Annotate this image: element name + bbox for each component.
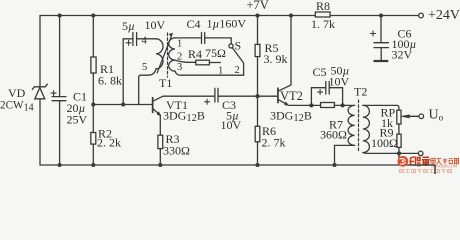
transformer T1 left winding (pins 4,5) bbox=[156, 39, 163, 69]
svg-text:6. 8k: 6. 8k bbox=[98, 74, 122, 88]
transistor VT1 bbox=[152, 96, 163, 116]
resistor R1 bbox=[91, 16, 96, 133]
resistor R7 bbox=[311, 103, 354, 108]
svg-text:C5: C5 bbox=[313, 65, 327, 79]
svg-text:25V: 25V bbox=[67, 113, 88, 127]
T1 core (dashed) bbox=[167, 33, 169, 77]
svg-text:R4: R4 bbox=[188, 47, 202, 61]
transformer T2 primary bbox=[348, 105, 355, 145]
svg-text:+24V: +24V bbox=[428, 8, 460, 23]
resistor R2 bbox=[91, 133, 96, 166]
svg-text:S: S bbox=[235, 39, 242, 53]
potentiometer RP bbox=[397, 110, 424, 124]
svg-text:3: 3 bbox=[177, 62, 182, 73]
wire VT1 collector to C3 bbox=[163, 95, 215, 97]
resistor R6 bbox=[255, 96, 260, 165]
capacitor C1 bbox=[51, 16, 66, 166]
svg-text:1. 7k: 1. 7k bbox=[311, 17, 335, 31]
wire top rail +7V bbox=[40, 15, 419, 17]
wire bottom ground rail bbox=[40, 165, 435, 174]
svg-text:VT2: VT2 bbox=[280, 89, 303, 103]
svg-text:T2: T2 bbox=[354, 85, 367, 99]
svg-text:32V: 32V bbox=[392, 48, 413, 62]
wire left vertical bbox=[39, 16, 41, 166]
svg-text:C4: C4 bbox=[187, 17, 201, 31]
svg-text:2: 2 bbox=[235, 65, 240, 76]
svg-text:10V: 10V bbox=[329, 75, 350, 89]
terminal circle +24V bbox=[419, 13, 424, 18]
zener diode VD 2CW14 bbox=[32, 84, 47, 99]
svg-text:3DG12B: 3DG12B bbox=[270, 109, 312, 125]
svg-text:+7V: +7V bbox=[247, 0, 269, 12]
svg-text:4: 4 bbox=[142, 36, 148, 47]
svg-text:VD: VD bbox=[8, 86, 26, 100]
terminal circle lower bbox=[418, 151, 423, 156]
wire T2 secondary top to RP bbox=[363, 105, 399, 110]
T1 adjust arrow bbox=[157, 33, 172, 73]
resistor R3 bbox=[158, 116, 163, 166]
capacitor C6 bbox=[371, 16, 389, 62]
resistor R5 bbox=[255, 16, 260, 97]
watermark logo bbox=[398, 156, 459, 173]
svg-text:1µ160V: 1µ160V bbox=[207, 17, 247, 31]
svg-text:5µ: 5µ bbox=[122, 19, 135, 33]
svg-text:2. 7k: 2. 7k bbox=[262, 136, 286, 150]
svg-text:100Ω: 100Ω bbox=[371, 136, 398, 150]
resistor R4 bbox=[175, 60, 220, 65]
wire T1 pin5 to base bbox=[139, 69, 156, 105]
resistor R9 bbox=[397, 124, 401, 165]
capacitor C5 bbox=[311, 82, 342, 106]
svg-text:330Ω: 330Ω bbox=[163, 144, 190, 158]
svg-text:2: 2 bbox=[177, 52, 182, 63]
wire VT1 base line bbox=[93, 104, 152, 106]
svg-text:5: 5 bbox=[142, 62, 147, 73]
svg-text:R8: R8 bbox=[316, 0, 330, 13]
svg-text:3DG12B: 3DG12B bbox=[163, 109, 205, 125]
capacitor C4 bbox=[175, 33, 231, 44]
transformer T1 right winding (pins 1,2,3) bbox=[169, 38, 175, 71]
wire T2 primary bottom to ground bbox=[335, 145, 355, 165]
svg-text:360Ω: 360Ω bbox=[320, 128, 347, 142]
capacitor C2 bbox=[123, 33, 156, 105]
svg-text:T1: T1 bbox=[159, 76, 172, 90]
svg-text:1: 1 bbox=[177, 39, 182, 50]
svg-text:1: 1 bbox=[218, 66, 223, 77]
resistor R8 bbox=[315, 12, 330, 17]
svg-text:2. 2k: 2. 2k bbox=[97, 136, 121, 150]
wire ground rail over watermark bbox=[409, 165, 436, 174]
svg-text:10V: 10V bbox=[221, 118, 242, 132]
svg-text:75Ω: 75Ω bbox=[205, 46, 226, 60]
transformer T2 secondary bbox=[363, 105, 369, 152]
svg-text:3. 9k: 3. 9k bbox=[264, 52, 288, 66]
svg-text:10V: 10V bbox=[145, 18, 166, 32]
capacitor C3 bbox=[205, 88, 278, 104]
wire T1 pin3 to switch bbox=[175, 71, 244, 75]
T2 core (dashed) bbox=[358, 100, 360, 152]
transistor VT2 bbox=[277, 16, 311, 106]
switch S bbox=[229, 44, 244, 75]
wire output lower terminal bbox=[399, 152, 418, 154]
wire T2 secondary bottom bbox=[363, 152, 399, 155]
